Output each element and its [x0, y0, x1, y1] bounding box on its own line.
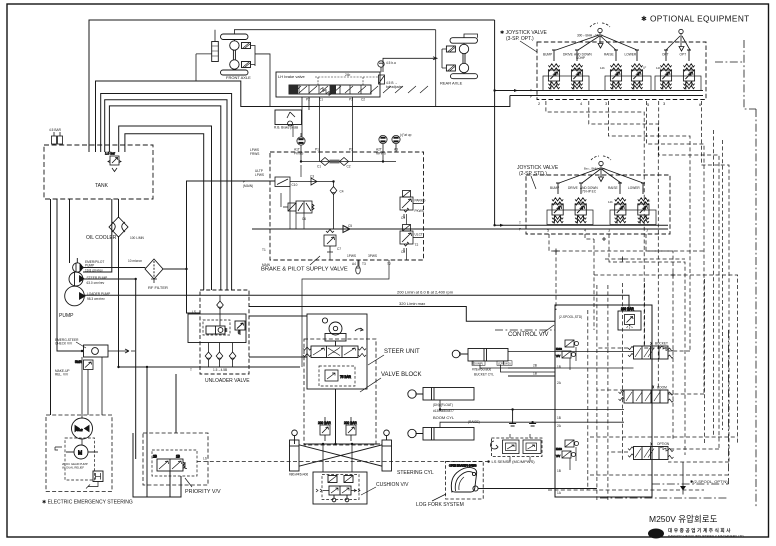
svg-text:brk adjuster: brk adjuster [386, 85, 404, 89]
svg-text:C4: C4 [340, 190, 344, 194]
LH brake valve [276, 72, 428, 97]
svg-text:REAR AXLE: REAR AXLE [440, 81, 463, 86]
svg-text:✱ LS SENSE (MC/MPWS): ✱ LS SENSE (MC/MPWS) [487, 459, 535, 464]
svg-text:STEERING CYL: STEERING CYL [397, 470, 434, 476]
svg-text:Nd: Nd [578, 200, 582, 204]
wire filter out [163, 181, 275, 313]
joystick handle 3 [559, 156, 643, 183]
svg-text:RF FILTER: RF FILTER [148, 285, 168, 290]
svg-text:PUMP: PUMP [59, 313, 74, 319]
control row3 spare pilot solenoids [556, 440, 579, 470]
svg-text:C3: C3 [310, 175, 314, 179]
cushion feeds [323, 444, 352, 472]
wire gauges bus [301, 149, 396, 162]
unloader out lines right [249, 316, 307, 357]
leader [520, 41, 537, 52]
wire front axle feed [255, 54, 270, 107]
wire L4 [105, 100, 227, 290]
dashed pilot mesh right side [546, 101, 738, 500]
svg-text:BUCKET CYL: BUCKET CYL [474, 373, 494, 377]
svg-text:ULCT: ULCT [415, 233, 423, 237]
tank [44, 145, 153, 199]
wire dash-dot horizontal top [715, 61, 744, 63]
svg-text:PRIORITY V/V: PRIORITY V/V [185, 489, 221, 495]
make-up relief small [75, 357, 102, 415]
pump P2 steer [69, 272, 84, 286]
log fork system [446, 461, 484, 499]
wires ls sense [510, 434, 530, 462]
wire mesh to control rows [644, 348, 704, 394]
svg-text:AC: AC [575, 67, 579, 71]
port lines left of control box [508, 368, 555, 376]
svg-text:#80x#45x406: #80x#45x406 [289, 473, 308, 477]
svg-text:P: P [519, 228, 521, 232]
tank relief 1.5 bar [105, 152, 121, 172]
svg-text:300 BAR: 300 BAR [621, 307, 634, 311]
cushion valve [313, 472, 367, 504]
tank suction stubs [51, 199, 119, 415]
C10 block [275, 177, 290, 187]
svg-text:FRONT AXLE: FRONT AXLE [226, 75, 251, 80]
wire unloader to priority [175, 374, 177, 433]
control row1 bucket: pilot solenoids [556, 340, 579, 370]
unloader valve box [200, 290, 249, 374]
electric emergency steering box [46, 415, 112, 492]
svg-text:BOOM CYL: BOOM CYL [433, 415, 455, 420]
wire dash-dot vertical right [755, 109, 757, 507]
svg-text:(DN)/(FLOAT): (DN)/(FLOAT) [433, 403, 453, 407]
C8 solenoid valve [400, 225, 424, 253]
wire pedal-gauge [293, 125, 301, 138]
C4 check [330, 187, 337, 195]
svg-text:LOWER: LOWER [625, 53, 637, 57]
leader [310, 256, 320, 265]
svg-text:OPEN BRAKE’G PAWS: OPEN BRAKE’G PAWS [449, 464, 477, 468]
svg-text:T: T [519, 221, 521, 225]
joystick valve 3-sp box [537, 42, 706, 100]
svg-text:EMG: EMG [556, 447, 562, 451]
svg-text:PUMP: PUMP [85, 264, 94, 268]
wires inner verticals [290, 165, 407, 367]
joystick valve 2-sp box [526, 175, 670, 234]
wire L7 [125, 134, 204, 290]
svg-text:1B: 1B [557, 469, 561, 473]
control row1 spool [628, 346, 674, 359]
svg-text:DRIVE: DRIVE [563, 53, 573, 57]
port stubs 2sp [556, 183, 645, 194]
plug symbols [509, 410, 536, 427]
svg-text:BUCKET: BUCKET [655, 342, 668, 346]
svg-text:LF: LF [647, 199, 651, 203]
H box [93, 471, 103, 482]
wire grapple out [478, 488, 597, 490]
wire tank-pump1 [69, 199, 71, 263]
unit frames [547, 210, 656, 225]
svg-text:320 L/min max: 320 L/min max [399, 301, 425, 306]
wire c10-c3 [290, 182, 334, 230]
wire pump top [81, 357, 83, 445]
svg-text:SOHP: SOHP [576, 56, 585, 60]
wire L2 [96, 81, 510, 152]
unloader main line through [200, 294, 249, 296]
emergency steering check block [84, 345, 136, 357]
svg-text:10 micron: 10 micron [128, 259, 142, 263]
svg-text:EMG: EMG [556, 347, 562, 351]
svg-text:T1: T1 [262, 248, 266, 252]
svg-text:LPWS: LPWS [255, 173, 264, 177]
svg-text:C8: C8 [401, 250, 405, 254]
svg-text:CHECK V/V: CHECK V/V [55, 342, 73, 346]
front axle [212, 34, 251, 75]
wires boom to control [440, 400, 624, 428]
pump P3 loader [65, 258, 85, 306]
oil cooler [109, 217, 128, 237]
svg-text:24b: 24b [345, 73, 351, 77]
svg-text:Bxx←BHH→Max: Bxx←BHH→Max [584, 167, 606, 171]
svg-text:✱: ✱ [641, 15, 647, 23]
filter 10 micron [145, 259, 163, 283]
wire L3 [101, 94, 232, 291]
svg-text:2B: 2B [533, 364, 537, 368]
svg-text:BOOM: BOOM [657, 386, 667, 390]
breather 4.5 BAR [52, 132, 63, 145]
reducing valve units 2sp [552, 198, 563, 224]
svg-text:MAIN: MAIN [262, 263, 271, 267]
joystick handle 1 [556, 23, 637, 50]
steer unit box [303, 314, 367, 389]
C7 reducing valve [324, 230, 336, 253]
plus ticks on pilot mesh [554, 237, 676, 278]
wire loader pump main line [85, 294, 201, 296]
LS dashed line [197, 461, 491, 463]
svg-text:T3: T3 [362, 262, 366, 266]
svg-text:M250V 유압회로도: M250V 유압회로도 [649, 514, 718, 524]
steering cylinder left [290, 430, 300, 471]
C3 check [308, 178, 320, 185]
svg-text:P1: P1 [315, 148, 319, 152]
svg-text:T: T [190, 368, 192, 372]
svg-text:LH brake valve: LH brake valve [278, 74, 305, 79]
svg-text:VALVE BLOCK: VALVE BLOCK [381, 372, 421, 378]
svg-text:P: P [530, 95, 532, 99]
svg-text:4.5 BAR: 4.5 BAR [49, 128, 62, 132]
joystick unit side labels [575, 66, 694, 205]
T and P rails [495, 91, 703, 96]
wires rear axle [436, 30, 478, 107]
svg-text:79 HP EC: 79 HP EC [582, 190, 597, 194]
svg-text:A4: A4 [352, 262, 356, 266]
gauge A1T [297, 137, 305, 150]
svg-text:✱(2-SPOOL, OPT’N): ✱(2-SPOOL, OPT’N) [690, 479, 728, 484]
control row3 spool [628, 447, 674, 460]
svg-text:(¹)”at up: (¹)”at up [400, 133, 412, 137]
steer bus [304, 389, 380, 444]
svg-text:4.5 b.a: 4.5 b.a [386, 61, 396, 65]
relief 200bar A [318, 417, 331, 441]
grapple claw [451, 467, 476, 492]
bucket cylinder [452, 349, 508, 362]
wires front axle [196, 30, 436, 81]
wire mesh 3sp drops [546, 101, 644, 348]
drain triangle [680, 486, 686, 491]
svg-text:(MAIN): (MAIN) [243, 184, 253, 188]
svg-text:RAISE: RAISE [604, 53, 614, 57]
svg-text:75 BAR: 75 BAR [340, 375, 352, 379]
svg-text:1B: 1B [557, 416, 561, 420]
svg-text:(2-SP. STD.): (2-SP. STD.) [519, 171, 547, 177]
svg-text:OPTIONAL EQUIPMENT: OPTIONAL EQUIPMENT [650, 14, 750, 24]
svg-text:19.8 cm³/rev: 19.8 cm³/rev [85, 269, 103, 273]
C5 check on pilot bus [252, 226, 526, 233]
wire cooler drop [118, 199, 120, 367]
svg-text:LS: LS [203, 457, 207, 461]
svg-text:3PWS: 3PWS [368, 254, 377, 258]
svg-text:OPT: OPT [680, 53, 687, 57]
svg-text:1.5 bar: 1.5 bar [105, 152, 116, 156]
svg-text:V/V: V/V [556, 454, 560, 458]
svg-text:PKWS: PKWS [294, 152, 303, 156]
svg-text:LOWER: LOWER [628, 186, 640, 190]
emer pump [72, 418, 93, 439]
svg-text:FRWS: FRWS [250, 152, 259, 156]
leader [361, 487, 376, 495]
svg-text:C2: C2 [361, 98, 365, 102]
svg-text:MPWS: MPWS [376, 152, 386, 156]
svg-text:LF: LF [690, 66, 694, 70]
svg-text:OIL COOLER: OIL COOLER [86, 235, 117, 241]
company logo [648, 529, 664, 539]
gauge A2T [379, 135, 387, 148]
svg-text:LOG FORK SYSTEM: LOG FORK SYSTEM [416, 502, 464, 508]
joystick handle 2 (opt) [666, 29, 690, 51]
steering cylinder right [382, 430, 392, 471]
svg-text:LS: LS [192, 310, 196, 314]
wire tank drain left [57, 199, 84, 351]
boom cylinder lower [408, 428, 474, 441]
svg-text:UNLOADER VALVE: UNLOADER VALVE [205, 378, 250, 384]
svg-text:대우중공업기계주식회사: 대우중공업기계주식회사 [668, 527, 732, 534]
gauge A3 [392, 135, 400, 148]
gerotor [322, 318, 327, 323]
svg-text:PKWS: PKWS [415, 209, 424, 213]
svg-text:1.5→4.5B: 1.5→4.5B [213, 368, 227, 372]
rear axle [446, 38, 477, 79]
pump P1 emer/pilot [73, 263, 84, 272]
return bus [119, 366, 301, 368]
svg-text:T2: T2 [415, 243, 419, 247]
priority valve [143, 433, 208, 485]
steer sub valve [319, 366, 355, 386]
wire mesh 2sp drops [549, 234, 556, 310]
svg-text:T: T [530, 89, 532, 93]
wires brake valve to box [302, 97, 353, 152]
wire L5 [109, 106, 220, 290]
svg-text:BRAKE & PILOT SUPPLY VALVE: BRAKE & PILOT SUPPLY VALVE [261, 267, 348, 273]
svg-text:98.3 cm³/rev: 98.3 cm³/rev [87, 297, 105, 301]
wires bucket to control [460, 352, 634, 373]
svg-text:J: J [646, 228, 648, 233]
svg-text:5MR: 5MR [75, 360, 82, 364]
emer motor [74, 445, 88, 459]
svg-text:R.B. Brake pedal: R.B. Brake pedal [274, 126, 298, 130]
unloader spool [206, 326, 225, 334]
svg-text:LF: LF [643, 66, 647, 70]
svg-text:C5: C5 [348, 224, 352, 228]
svg-text:14b: 14b [656, 66, 661, 70]
svg-text:100 L/MN: 100 L/MN [130, 236, 145, 240]
svg-text:V/V: V/V [556, 354, 560, 358]
shuttle C1 C2 [321, 158, 349, 166]
svg-text:C9: C9 [401, 216, 405, 220]
svg-text:PARKG: PARKG [415, 199, 426, 203]
valve block dashed box [304, 339, 376, 445]
leader [360, 378, 381, 392]
svg-text:RAISE: RAISE [608, 186, 618, 190]
svg-text:6cc/r: 6cc/r [77, 428, 83, 432]
dash-dot margin lines [495, 40, 756, 507]
leader [185, 478, 192, 487]
wire bundle L1 (tank to top rail) [89, 20, 495, 152]
main relief 300bar [618, 307, 641, 330]
svg-text:C7: C7 [337, 247, 341, 251]
svg-text:2B: 2B [153, 455, 157, 459]
svg-text:OPTION: OPTION [657, 442, 670, 446]
unit frames [543, 76, 701, 91]
T and P rails 2sp [495, 225, 668, 229]
cross lines [299, 445, 382, 466]
steer spool bank [311, 346, 358, 358]
unloader check valves x3 [205, 352, 212, 360]
svg-text:STEER UNIT: STEER UNIT [384, 349, 420, 355]
svg-text:14b: 14b [600, 66, 605, 70]
brake & pilot supply valve box [270, 152, 424, 260]
svg-text:(2-SPOOL,STD): (2-SPOOL,STD) [559, 315, 582, 319]
leader [543, 325, 554, 333]
svg-text:W/ DUAL RELIEF: W/ DUAL RELIEF [62, 466, 84, 470]
svg-text:DAEWOO HEAVY INDUSTRIES & MACH: DAEWOO HEAVY INDUSTRIES & MACHINERY LTD. [668, 535, 745, 539]
wire tank-pump2 [83, 199, 112, 272]
wire priority out [147, 367, 170, 497]
wire tank left col [50, 199, 52, 415]
svg-text:P2: P2 [306, 98, 310, 102]
wire L6 [119, 126, 212, 290]
svg-text:CUSHION V/V: CUSHION V/V [376, 482, 409, 488]
svg-text:OPT: OPT [662, 53, 669, 57]
pilot line inside [315, 77, 378, 85]
wires to checks [209, 343, 233, 368]
control row2 boom spool [619, 390, 674, 403]
svg-text:C2: C2 [347, 165, 351, 169]
brake pedal box [275, 110, 302, 126]
wire [219, 295, 221, 326]
svg-text:63.0 cm³/rev: 63.0 cm³/rev [87, 281, 105, 285]
reducing valve units 3sp [548, 64, 559, 90]
svg-text:C1: C1 [317, 165, 321, 169]
boom cylinder upper [408, 388, 474, 401]
wire brake valve to rear axle [383, 57, 437, 72]
C6 solenoid valve [281, 193, 314, 213]
unloader sub-block [188, 314, 246, 343]
LS sense block [491, 438, 542, 457]
port stubs and labels 3sp [552, 50, 691, 61]
svg-text:(DUMP): (DUMP) [473, 361, 483, 365]
control valve box [555, 305, 652, 497]
svg-text:BUMP: BUMP [543, 53, 552, 57]
svg-text:(CROWD): (CROWD) [498, 361, 511, 365]
svg-text:1B: 1B [176, 455, 180, 459]
C9 solenoid valve [400, 191, 424, 219]
svg-text:TANK: TANK [95, 183, 109, 189]
svg-text:REL. V/V: REL. V/V [55, 373, 69, 377]
svg-text:C10: C10 [292, 183, 298, 187]
svg-text:BUMP: BUMP [550, 186, 559, 190]
wire steer pump to priority [83, 279, 136, 459]
svg-text:200 L/min at 6.0 B at 2,400 r: 200 L/min at 6.0 B at 2,400 rpm [397, 290, 454, 295]
svg-text:✱ ELECTRIC EMERGENCY STEERING: ✱ ELECTRIC EMERGENCY STEERING [42, 500, 133, 506]
unloader relief [235, 321, 245, 330]
leader [531, 176, 536, 189]
wire priority loop [133, 433, 181, 497]
svg-text:M: M [78, 451, 82, 457]
svg-text:CONTROL V/V: CONTROL V/V [508, 332, 548, 338]
svg-text:14b: 14b [608, 200, 613, 204]
leader [432, 494, 446, 501]
brake accumulator [378, 61, 385, 84]
svg-text:DRIVE: DRIVE [568, 186, 578, 190]
svg-text:1PWS: 1PWS [347, 254, 356, 258]
relief 200bar B [344, 417, 357, 441]
unloader check top [217, 301, 224, 309]
leader [368, 355, 384, 365]
svg-text:300←BHH→More: 300←BHH→More [577, 34, 603, 38]
accumulator A4 [356, 260, 361, 274]
wire pilot line to filter [82, 267, 145, 269]
